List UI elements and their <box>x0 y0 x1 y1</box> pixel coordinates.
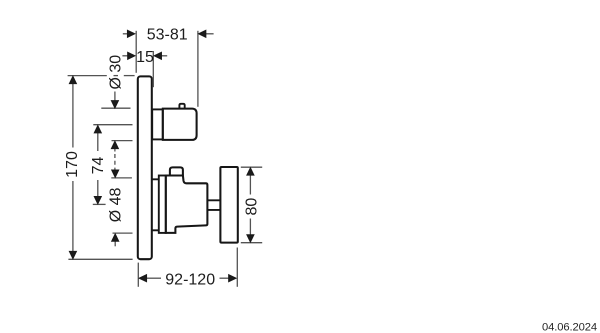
wall plate (escutcheon) <box>138 76 152 259</box>
cross handle bar <box>220 167 237 243</box>
extension line E1 (wall face) <box>135 31 137 73</box>
svg-text:80: 80 <box>244 198 261 216</box>
lower sleeve (escutcheon collar) <box>159 176 166 233</box>
dimension 53-81 <box>123 33 214 35</box>
svg-text:Ø 48: Ø 48 <box>107 187 124 222</box>
handle stem <box>207 200 220 210</box>
svg-text:170: 170 <box>64 151 81 178</box>
extension line E2 (plate front) <box>152 51 154 87</box>
dimension 170 <box>68 76 135 260</box>
dimension 80 <box>241 167 262 243</box>
dimension 15 <box>122 55 167 57</box>
svg-text:74: 74 <box>90 157 107 175</box>
dimension 92-120 <box>138 248 237 287</box>
svg-text:92-120: 92-120 <box>165 271 215 288</box>
lower valve neck through plate <box>153 179 159 230</box>
upper handle body (shut-off handle, side view) <box>163 109 197 140</box>
svg-text:15: 15 <box>136 49 154 66</box>
dimension Ø48 <box>111 178 132 246</box>
lower knob (temperature stop button) <box>170 167 183 175</box>
svg-text:53-81: 53-81 <box>147 27 188 44</box>
upper sleeve <box>152 109 163 139</box>
dimension Ø30 <box>101 92 132 170</box>
dimension 74 <box>93 125 133 205</box>
lower thermostat body <box>166 176 208 233</box>
svg-text:Ø 30: Ø 30 <box>107 55 124 90</box>
svg-text:04.06.2024: 04.06.2024 <box>542 322 597 333</box>
extension line E3 (handle front) <box>197 31 199 107</box>
upper handle nub (index button) <box>179 104 184 109</box>
